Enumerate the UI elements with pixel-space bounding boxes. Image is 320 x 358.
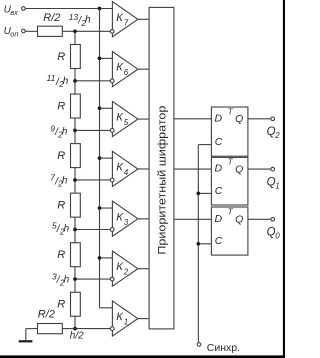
svg-text:R: R	[57, 200, 65, 212]
op-amp comparator K4	[112, 151, 137, 186]
svg-text:R: R	[57, 100, 65, 112]
inverting input bubble K1	[110, 327, 114, 331]
wire K4 output to encoder	[138, 168, 149, 170]
inverting input bubble K2	[110, 277, 114, 281]
svg-text:Q: Q	[235, 163, 243, 175]
wire encoder output 1 to D input	[174, 168, 212, 170]
label Q1	[267, 176, 280, 190]
wire Q1 output	[248, 168, 271, 170]
junction node h/2	[73, 327, 77, 331]
resistor R #1	[71, 45, 81, 69]
svg-text:h/2: h/2	[70, 330, 84, 341]
label node 3/2h	[52, 272, 70, 288]
svg-text:К: К	[116, 12, 123, 24]
svg-text:R: R	[57, 150, 65, 162]
output terminal Q0	[271, 218, 275, 222]
wire K3 output to encoder	[138, 218, 149, 220]
junction node 7/2h	[73, 178, 77, 182]
sync line vertical	[197, 145, 199, 343]
junction node 13/2h	[73, 29, 77, 33]
wire encoder output 0 to D input	[174, 218, 212, 220]
svg-text:К: К	[116, 112, 123, 124]
junction node 5/2h	[73, 228, 77, 232]
wire bottom R/2 to node h/2	[62, 328, 75, 330]
svg-text:К: К	[116, 261, 123, 273]
wire node 11/2h to comparator K6 inverting input	[75, 80, 111, 82]
svg-text:Приоритетный шифратор: Приоритетный шифратор	[156, 106, 168, 255]
svg-text:7: 7	[124, 18, 129, 27]
inverting input bubble K7	[110, 29, 114, 33]
wire sync to C of FF2	[198, 192, 211, 194]
wire node 9/2h to comparator K5 inverting input	[75, 129, 111, 131]
wire bus corner to K1 plus input	[100, 307, 113, 309]
inverting input bubble K6	[110, 79, 114, 83]
resistor R #6	[71, 292, 81, 316]
wire K2 output to encoder	[138, 268, 149, 270]
wire node h/2 to comparator K1 inverting input	[75, 328, 111, 330]
frame bottom bar	[0, 355, 285, 358]
op-amp comparator K6	[112, 52, 137, 87]
label Q0	[267, 227, 281, 241]
label node 13/2h	[69, 12, 91, 28]
terminal U_op	[22, 29, 26, 33]
wire node 13/2h to comparator K7 inverting input	[75, 30, 111, 32]
junction bus top at K7 plus input	[98, 7, 102, 11]
sync terminal	[197, 343, 201, 347]
svg-text:3: 3	[124, 218, 129, 227]
priority encoder box	[149, 7, 174, 329]
svg-text:11: 11	[47, 73, 56, 83]
junction bus tap K6	[98, 57, 102, 61]
wire K6 output to encoder	[138, 68, 149, 70]
svg-text:h: h	[64, 274, 70, 285]
wire U_op to resistor R/2	[25, 30, 37, 32]
D flip-flop U4 (Q0)	[211, 207, 248, 255]
junction bus tap K2	[98, 256, 102, 260]
svg-text:К: К	[116, 211, 123, 223]
junction bus tap K4	[98, 156, 102, 160]
wire U_vx to comparator K7 noninverting input	[25, 8, 112, 10]
svg-text:R/2: R/2	[38, 309, 55, 321]
D flip-flop U3 (Q1)	[211, 157, 248, 205]
svg-text:R: R	[57, 51, 65, 63]
wire bus to K2 plus input	[100, 257, 113, 259]
svg-text:1: 1	[275, 181, 279, 190]
resistor R/2 bottom	[38, 324, 63, 334]
label Q2	[267, 126, 281, 140]
wire node 7/2h to comparator K4 inverting input	[75, 179, 111, 181]
ground	[19, 329, 33, 342]
wire encoder output 2 to D input	[174, 118, 212, 120]
wire node 3/2h to comparator K2 inverting input	[75, 278, 111, 280]
inverting input bubble K5	[110, 129, 114, 133]
svg-text:4: 4	[124, 168, 129, 177]
label U_vx (input voltage)	[4, 5, 19, 17]
svg-text:C: C	[215, 235, 223, 247]
wire bus to K5 plus input	[100, 107, 113, 109]
resistor R #4	[71, 193, 81, 217]
label node 7/2h	[50, 173, 68, 189]
wire K7 output to encoder	[138, 18, 149, 20]
svg-text:h: h	[63, 76, 69, 87]
wire bus to K6 plus input	[100, 57, 113, 59]
svg-text:C: C	[215, 136, 223, 148]
D flip-flop U2 (Q2)	[211, 107, 248, 156]
output terminal Q2	[271, 117, 275, 121]
svg-text:К: К	[116, 62, 123, 74]
svg-text:оп: оп	[10, 29, 18, 38]
output terminal Q1	[271, 167, 275, 171]
op-amp comparator K3	[112, 201, 137, 236]
op-amp comparator K2	[112, 251, 137, 286]
svg-text:0: 0	[275, 232, 280, 241]
svg-text:D: D	[215, 213, 223, 225]
resistor R/2 top	[38, 26, 63, 36]
svg-text:13: 13	[69, 12, 79, 22]
op-amp comparator K7	[112, 2, 137, 37]
svg-text:h: h	[62, 126, 68, 137]
svg-text:R: R	[57, 299, 65, 311]
svg-text:D: D	[215, 112, 223, 124]
svg-text:C: C	[215, 185, 223, 197]
svg-text:6: 6	[124, 68, 129, 77]
ladder vertical wire	[74, 31, 76, 328]
junction bus tap K5	[98, 106, 102, 110]
svg-text:К: К	[116, 311, 123, 323]
label node 5/2h	[52, 221, 70, 237]
wire ground to bottom R/2	[26, 328, 38, 330]
wire node 5/2h to comparator K3 inverting input	[75, 229, 111, 231]
input terminal U_vx	[22, 7, 26, 11]
U_vx distribution bus	[99, 9, 101, 308]
label node 9/2h	[50, 124, 68, 140]
wire bus to K3 plus input	[100, 207, 113, 209]
svg-text:Синхр.: Синхр.	[207, 342, 240, 354]
resistor R #2	[71, 94, 81, 118]
svg-text:Q: Q	[235, 113, 243, 125]
label node 11/2h	[47, 73, 69, 89]
wire Q2 output	[248, 118, 271, 120]
svg-text:1: 1	[124, 318, 128, 327]
svg-text:D: D	[215, 163, 223, 175]
wire K5 output to encoder	[138, 118, 149, 120]
svg-text:h: h	[62, 175, 68, 186]
wire R/2 to node 13/2h	[62, 30, 75, 32]
wire K1 output to encoder	[138, 318, 149, 320]
svg-text:вх: вх	[10, 8, 18, 17]
svg-text:К: К	[116, 161, 123, 173]
op-amp comparator K5	[112, 101, 137, 136]
wire Q0 output	[248, 218, 271, 220]
wire sync to C of FF3	[198, 243, 211, 245]
inverting input bubble K3	[110, 228, 114, 232]
junction bus tap K3	[98, 206, 102, 210]
inverting input bubble K4	[110, 178, 114, 182]
junction node 11/2h	[73, 79, 77, 83]
frame right bar	[283, 0, 285, 358]
svg-text:2: 2	[274, 131, 280, 140]
junction node 3/2h	[73, 277, 77, 281]
wire bus to K4 plus input	[100, 157, 113, 159]
junction sync/C3	[196, 242, 200, 246]
svg-text:5: 5	[124, 118, 129, 127]
svg-text:h: h	[85, 15, 91, 26]
svg-text:Q: Q	[235, 214, 243, 226]
svg-text:2: 2	[123, 268, 129, 277]
svg-text:h: h	[64, 223, 70, 234]
resistor R #5	[71, 243, 81, 267]
wire sync to C of FF1	[198, 144, 211, 146]
junction sync/C2	[196, 192, 200, 196]
op-amp comparator K1	[112, 301, 137, 336]
svg-text:R: R	[57, 249, 65, 261]
resistor R #3	[71, 144, 81, 168]
label U_op (reference voltage)	[4, 26, 19, 38]
junction node 9/2h	[73, 129, 77, 133]
svg-text:R/2: R/2	[43, 12, 60, 24]
